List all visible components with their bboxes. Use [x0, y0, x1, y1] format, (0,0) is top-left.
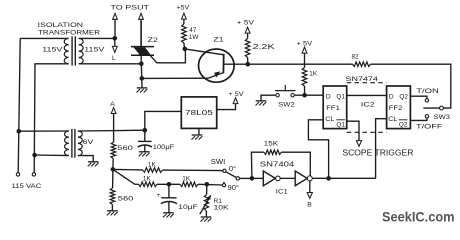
wire triac gate [151, 50, 186, 63]
svg-text:Z1: Z1 [214, 37, 224, 44]
node emitter junction [140, 76, 145, 81]
svg-text:IC1: IC1 [276, 188, 288, 195]
svg-text:SWI: SWI [211, 159, 226, 166]
wire T2 primary top [19, 130, 69, 132]
wire Q1 to D2 [347, 94, 387, 96]
svg-text:115V: 115V [84, 47, 105, 54]
wire Q1bar to scope trigger [347, 121, 359, 140]
wire CL1 staircase [308, 120, 328, 179]
svg-text:6V: 6V [83, 139, 94, 146]
scope trigger arrow [356, 141, 361, 147]
node 47-collector junction [183, 47, 188, 52]
potentiometer R1 [206, 184, 208, 194]
node junction primary-right / 6V primary bottom [32, 153, 37, 158]
svg-text:T/ON: T/ON [416, 88, 439, 95]
node R1 junction [205, 182, 210, 187]
wire output run [312, 177, 375, 179]
transistor Z1 emitter [208, 73, 223, 79]
svg-text:TO PSUT: TO PSUT [111, 4, 150, 11]
inverter IC1b [295, 171, 307, 186]
ground below 78L05 [198, 128, 200, 135]
power arrow +5V (47 ohm) [182, 13, 187, 19]
node 10uF junction [167, 182, 172, 187]
wire primary top [20, 37, 68, 39]
wire T/OFF to Q2bar [411, 118, 427, 120]
wire input to inverter1 [252, 177, 263, 179]
wire D node to FF1 [305, 94, 324, 96]
wire inverter1 to inverter2 [280, 177, 295, 179]
svg-text:1K: 1K [309, 71, 318, 78]
wire left vertical to 115VAC [18, 38, 20, 172]
wire secondary bottom [79, 63, 142, 65]
wire 1K row1 to SW1 [163, 169, 223, 172]
IC2 package dashed top [347, 82, 387, 84]
transformer T2 primary winding [64, 131, 68, 156]
node L junction [113, 36, 118, 41]
transformer T1 core [71, 36, 73, 65]
capacitor 10uF [168, 184, 170, 197]
svg-text:SCOPE TRIGGER: SCOPE TRIGGER [342, 148, 413, 157]
svg-text:Z2: Z2 [148, 37, 159, 44]
node D input node [302, 93, 307, 98]
svg-text:D: D [326, 93, 331, 100]
resistor 1K row2b [180, 182, 198, 187]
ground below R1 [201, 216, 212, 218]
svg-text:CL: CL [388, 116, 397, 123]
svg-text:L: L [112, 55, 116, 62]
ground below 100uF [139, 151, 150, 153]
svg-text:+ 5V: + 5V [237, 19, 255, 26]
wire 47 to node [183, 43, 186, 49]
wire diag to 1K row2 [113, 169, 135, 184]
svg-text:100μF: 100μF [153, 144, 175, 151]
capacitor 100uF [144, 130, 146, 141]
node 100uF junction [143, 128, 148, 133]
svg-text:10K: 10K [214, 205, 230, 212]
svg-text:1K: 1K [182, 175, 191, 182]
flip-flop FF1 box [323, 86, 347, 129]
wire SW2 to ground [261, 95, 276, 101]
svg-text:Q2: Q2 [399, 121, 408, 128]
svg-text:B: B [307, 202, 312, 209]
svg-text:FF2: FF2 [389, 105, 403, 112]
transformer T2 core [71, 129, 73, 158]
svg-text:ISOLATION: ISOLATION [38, 22, 84, 29]
wire junction to 1K row1 [113, 168, 143, 171]
wire 560 to junction [112, 159, 114, 170]
svg-text:SW2: SW2 [278, 102, 295, 109]
wire triac to ground [140, 64, 143, 79]
contact T/ON [425, 99, 428, 102]
wire emitter to junction [142, 77, 208, 79]
svg-text:T/OFF: T/OFF [416, 124, 443, 131]
switch SW3 pole circle [440, 106, 444, 110]
wire row2 to 90deg [198, 183, 223, 186]
node inverter input [250, 176, 255, 181]
wire D node to SW2 [294, 94, 304, 96]
svg-text:SeekIC.com: SeekIC.com [382, 210, 455, 226]
terminal arrow TO PSUT right [139, 13, 144, 19]
resistor 82 [353, 62, 371, 67]
wire T2 secondary bottom [78, 156, 93, 162]
power arrow +5V (1K) [302, 47, 307, 53]
wire 78L05 input riser [145, 111, 182, 130]
wire 2.2K bottom [247, 58, 249, 65]
svg-text:1K: 1K [143, 175, 152, 182]
flip-flop FF2 box [387, 86, 411, 129]
power arrow +5V (78L05) [233, 98, 238, 104]
svg-text:FF1: FF1 [326, 105, 340, 112]
resistor 560 lower [110, 188, 115, 205]
svg-text:SW3: SW3 [434, 114, 451, 121]
svg-text:+5V: +5V [177, 5, 190, 12]
ground below triac [141, 78, 143, 87]
IC2 package dashed bottom [347, 131, 387, 133]
inverter IC1a [263, 171, 275, 186]
svg-text:0°: 0° [229, 164, 236, 173]
power arrow +5V (2.2K) [245, 27, 250, 33]
pushbutton SW2 [291, 94, 294, 97]
triac Z2 [131, 46, 154, 48]
switch SW1 arm [226, 172, 237, 178]
ground at SW2 [256, 100, 267, 102]
contact T/OFF [425, 115, 428, 118]
svg-text:CL: CL [325, 116, 334, 123]
svg-text:115 VAC: 115 VAC [12, 183, 42, 190]
wire base lead [224, 63, 248, 65]
svg-text:115V: 115V [42, 47, 63, 54]
svg-text:2.2K: 2.2K [253, 42, 275, 51]
resistor 47 1W [182, 24, 187, 43]
svg-text:560: 560 [117, 145, 133, 152]
svg-text:+: + [157, 192, 161, 199]
regulator 78L05 box [181, 97, 216, 128]
wire junction to 560 lower [112, 169, 114, 188]
ground below 10uF [163, 212, 174, 214]
svg-text:D: D [389, 93, 394, 100]
transformer T1 primary winding [64, 38, 68, 63]
svg-text:TRANSFORMER: TRANSFORMER [38, 29, 100, 36]
wire Q2 to T/ON [411, 96, 427, 98]
transistor Z1 body circle [199, 49, 235, 82]
wire 78L05 output [217, 103, 236, 109]
terminal 115VAC right [32, 173, 35, 176]
resistor 1K row1 [143, 168, 163, 173]
svg-text:+ 5V: + 5V [229, 91, 245, 98]
ground below 560 [107, 210, 118, 212]
wire T2 primary bottom [35, 154, 69, 157]
svg-text:10μF: 10μF [178, 204, 198, 211]
transistor Z1 base bar [222, 54, 224, 73]
resistor 15K feedback [251, 152, 263, 178]
ground at T2 secondary [88, 161, 99, 163]
resistor 1K row2a [139, 182, 158, 187]
svg-text:Q2: Q2 [399, 93, 408, 100]
contact SW1 0deg [223, 169, 226, 172]
node base node [246, 62, 251, 67]
terminal arrow TO PSUT left [113, 13, 118, 19]
svg-text:Q1: Q1 [336, 93, 345, 100]
svg-text:SN7474: SN7474 [346, 76, 379, 83]
wire 560 lower to ground [111, 205, 113, 211]
wire T2 secondary top / A rail [78, 129, 145, 132]
wire SW1 pole to input node [240, 177, 252, 179]
svg-text:15K: 15K [264, 141, 279, 148]
svg-text:SN7404: SN7404 [260, 161, 295, 168]
contact SW1 90deg [223, 182, 225, 184]
svg-text:560: 560 [118, 196, 134, 203]
wire primary bottom [34, 64, 68, 173]
wire 82 to right edge [371, 64, 451, 108]
svg-text:82: 82 [352, 53, 360, 60]
switch SW1 pole [236, 177, 239, 180]
transformer T1 secondary winding [79, 38, 83, 63]
resistor 1K (pullup) [302, 68, 307, 87]
node secondary-triac junction [139, 62, 144, 67]
node output node [326, 176, 331, 181]
wire collector diagonal [185, 49, 224, 55]
svg-text:IC2: IC2 [361, 101, 375, 108]
node divider junction [111, 167, 116, 172]
wire 1K to D node [304, 86, 306, 95]
svg-text:1W: 1W [189, 34, 200, 41]
svg-text:Q1: Q1 [336, 121, 345, 128]
svg-text:1K: 1K [148, 161, 157, 168]
resistor 2.2K [245, 39, 250, 58]
node junction primary-left / 6V primary top [17, 129, 22, 134]
svg-text:78L05: 78L05 [185, 108, 213, 117]
transformer T2 secondary winding [78, 131, 82, 156]
terminal B arrow [309, 181, 311, 193]
terminal 115VAC left [16, 173, 19, 176]
wire CL2 riser [376, 119, 387, 179]
wire row2 mid [157, 183, 180, 185]
wire secondary top [79, 37, 115, 39]
terminal L arrow [114, 38, 116, 46]
svg-text:A: A [110, 101, 115, 108]
wire base node to 82 [248, 63, 353, 65]
wire to 1K row2 [135, 183, 139, 185]
resistor 560 upper [111, 142, 116, 159]
svg-text:90°: 90° [228, 183, 239, 192]
terminal arrow A [111, 108, 116, 114]
